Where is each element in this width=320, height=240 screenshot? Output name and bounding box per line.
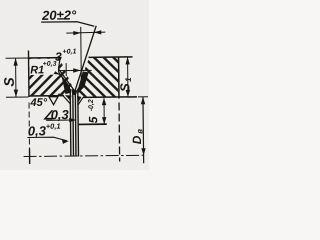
S1 top arrow xyxy=(125,57,129,65)
S dim extension top xyxy=(6,57,28,59)
45 deg seat face left xyxy=(59,69,74,90)
0,3 leader arrow xyxy=(69,118,76,122)
R1 leader arrow xyxy=(54,71,61,75)
S bottom arrow xyxy=(14,90,18,98)
20 deg chamfer line xyxy=(74,26,97,91)
R1 leader xyxy=(50,70,60,75)
throat dark wedge right xyxy=(77,96,82,103)
5 dim top arrow xyxy=(102,98,106,106)
left steep face xyxy=(58,58,71,91)
5 dim bottom arrow xyxy=(102,117,106,124)
white box for R1 text xyxy=(29,59,58,75)
0,3+0.1 leader arrow xyxy=(62,140,69,144)
vertical extension line at seat mouth xyxy=(80,27,83,88)
S1 dim line xyxy=(127,57,129,97)
Dv dim line xyxy=(142,97,145,163)
angle label 20±2° leader underline xyxy=(41,22,94,27)
seat insert dark wedge right xyxy=(77,71,89,93)
seat insert dark wedge left xyxy=(61,75,71,95)
guide bore verticals xyxy=(69,89,72,156)
throat chamfer right xyxy=(78,97,83,105)
horizontal arrow line of angle dim xyxy=(66,31,105,34)
right block top edge + S1 top ext xyxy=(89,56,133,58)
throat chamfer left xyxy=(63,96,71,105)
right block bottom edge + ext xyxy=(83,96,137,99)
3+0.1 dim line xyxy=(57,69,92,71)
right block right edge xyxy=(118,57,120,98)
3 dim left extension tick xyxy=(65,63,67,76)
angle dim arrow right xyxy=(73,31,81,35)
3 dim arrow xyxy=(73,68,81,72)
left block top edge xyxy=(28,57,61,59)
left block hatch xyxy=(25,54,80,101)
axis line dash-dot xyxy=(24,155,147,156)
left edge dashed continuation xyxy=(28,102,30,148)
S1 bottom arrow xyxy=(126,90,130,97)
5 dim line xyxy=(103,98,105,123)
counterbore bottom line xyxy=(78,123,106,125)
S dim extension bottom xyxy=(6,96,28,98)
right edge continuation down xyxy=(118,103,121,162)
left block bottom edge xyxy=(28,95,63,97)
S dimension line xyxy=(15,58,17,97)
finish symbol nabla xyxy=(49,94,60,105)
Dv top arrow xyxy=(141,97,145,105)
Dv bottom arrow xyxy=(141,148,145,155)
Dv top tick xyxy=(138,96,148,98)
0,3 leader xyxy=(46,119,75,121)
0,3+0.1 underline and leader xyxy=(27,137,67,141)
left edge bottom solid xyxy=(29,148,31,163)
left block left edge (solid) xyxy=(27,50,29,96)
throat dark center xyxy=(71,89,77,95)
S top arrow xyxy=(13,58,17,66)
throat dark wedge left xyxy=(65,95,72,101)
right block hatch xyxy=(73,53,123,101)
